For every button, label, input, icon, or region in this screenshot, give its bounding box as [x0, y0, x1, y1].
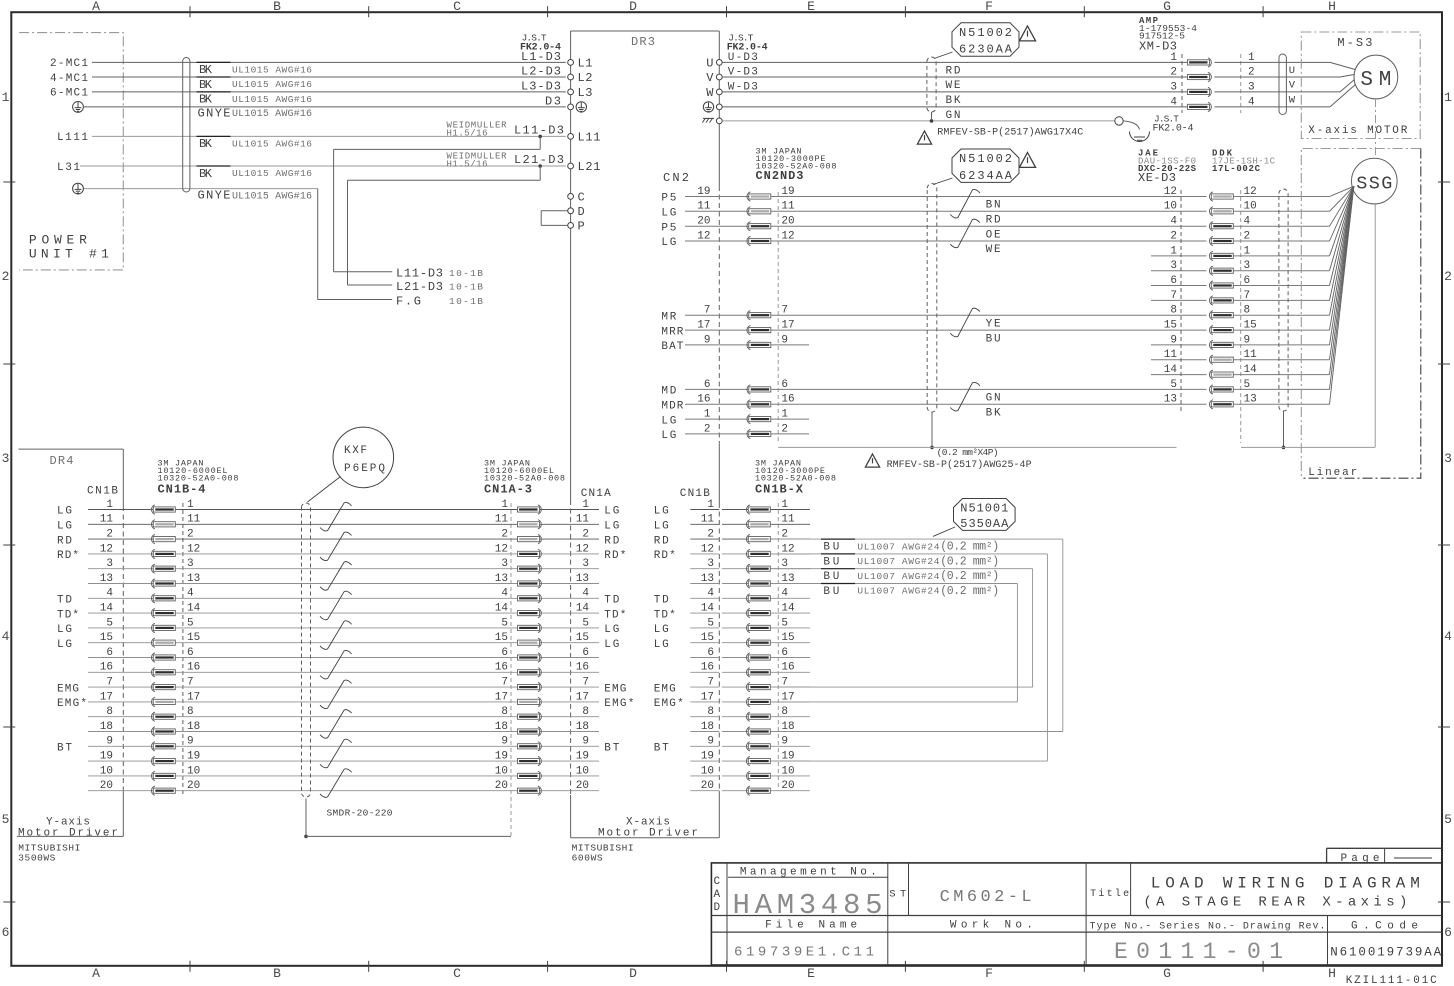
XE-D3 contact pin 14: [1211, 372, 1233, 377]
wire CN1B-4 pin 11 to CN1A-3: [88, 523, 599, 525]
XE-D3 contact pin 7: [1211, 298, 1233, 303]
svg-text:14: 14: [576, 603, 590, 615]
XM-D3 contact pin 3: [1188, 89, 1210, 94]
svg-text:D: D: [578, 205, 585, 219]
CN1A-3 contact pin 5: [518, 625, 540, 630]
svg-text:14: 14: [495, 603, 509, 615]
svg-text:4: 4: [707, 588, 714, 600]
twisted pair marker rows 0-1: [950, 189, 980, 218]
svg-text:RD: RD: [57, 535, 72, 547]
svg-text:1: 1: [1444, 90, 1452, 105]
svg-text:19: 19: [495, 751, 508, 763]
wire CN1B-4 pin 7 to CN1A-3: [88, 686, 599, 688]
svg-text:TD: TD: [654, 595, 669, 607]
CN1B-X wire pin 11: [722, 523, 810, 525]
svg-text:10: 10: [1164, 201, 1177, 213]
CN1B stub pin 11: [690, 523, 719, 525]
wire XE contact to SSG bend 1: [1233, 255, 1329, 257]
svg-text:F.G: F.G: [396, 295, 421, 309]
XE-D3 stub wire row 12: [1151, 374, 1207, 376]
wire CN1B-4 pin 18 to CN1A-3: [88, 731, 599, 733]
CN2 wire pin 6: [685, 388, 809, 390]
chassis symbol DR3 right: [703, 117, 714, 119]
balloon N51002 6234AA: [952, 149, 1019, 182]
encoder fan wire 2: [1330, 186, 1354, 241]
svg-text:F: F: [985, 0, 993, 14]
svg-text:KXF: KXF: [344, 445, 367, 457]
balloon leader N51001: [933, 527, 955, 536]
svg-text:18: 18: [187, 721, 200, 733]
svg-text:LG: LG: [57, 624, 72, 636]
svg-text:17: 17: [697, 320, 710, 332]
XE-D3 stub wire row 4: [1151, 255, 1207, 257]
svg-text:10: 10: [495, 765, 508, 777]
wire L31 to L21: [80, 165, 566, 167]
wire CN1B-4 pin 19 to CN1A-3: [88, 760, 599, 762]
svg-text:6: 6: [2, 925, 10, 940]
svg-text:CN1B: CN1B: [87, 485, 118, 497]
svg-text:MR: MR: [661, 311, 676, 323]
svg-text:BK: BK: [986, 408, 1001, 420]
encoder cable drain CN2 side: [931, 412, 933, 446]
wire label BK row3: [197, 91, 231, 93]
svg-text:UL1015 AWG#16: UL1015 AWG#16: [232, 191, 312, 202]
svg-text:12: 12: [697, 230, 710, 242]
CN1B-4 contact pin 12: [153, 551, 175, 556]
XE-D3 contact pin 12: [1211, 194, 1233, 199]
svg-text:SMDR-20-220: SMDR-20-220: [327, 808, 393, 819]
wire XE contact to SSG bend 10: [1233, 210, 1329, 212]
CN1A-3 contact pin 16: [518, 670, 540, 675]
CN1A-3 contact pin 10: [518, 773, 540, 778]
wire CN1B-4 pin 13 to CN1A-3: [88, 583, 599, 585]
svg-text:8: 8: [187, 706, 194, 718]
svg-text:BT: BT: [57, 743, 72, 755]
junction dot drain XE side: [1282, 446, 1286, 450]
svg-text:16: 16: [100, 662, 113, 674]
svg-text:9: 9: [781, 334, 788, 346]
twisted pair marker pins 8-18: [320, 710, 352, 739]
KXF drain bus: [306, 835, 511, 837]
junction dot motor drain: [930, 119, 934, 123]
svg-text:7: 7: [187, 677, 194, 689]
svg-text:7: 7: [501, 677, 508, 689]
CN1B-X wire pin 8: [722, 716, 810, 718]
svg-text:LG: LG: [654, 506, 669, 518]
svg-text:1: 1: [707, 499, 714, 511]
svg-text:BK: BK: [199, 93, 213, 107]
wire CN1B-4 pin 20 to CN1A-3: [88, 790, 599, 792]
svg-text:5: 5: [781, 617, 788, 629]
XE-D3 stub wire row 7: [1151, 299, 1207, 301]
svg-text:BU: BU: [986, 333, 1001, 345]
CN1A-3 contact pin 6: [518, 655, 540, 660]
svg-text:3: 3: [2, 451, 10, 466]
encoder fan wire 9: [1330, 186, 1354, 345]
svg-text:15: 15: [1164, 320, 1177, 332]
cup ground symbol motor cable: [1130, 132, 1150, 142]
svg-text:9: 9: [707, 736, 714, 748]
svg-text:GNYE: GNYE: [198, 189, 231, 203]
CN2ND3 contact pin 20: [749, 224, 771, 229]
svg-text:A: A: [714, 889, 721, 901]
svg-text:13: 13: [100, 573, 113, 585]
CN1B-4 contact pin 19: [153, 759, 175, 764]
svg-text:16: 16: [781, 662, 794, 674]
twisted pair marker pins 9-19: [320, 739, 352, 768]
svg-text:5: 5: [501, 617, 508, 629]
drain bus to SSG: [1374, 204, 1376, 447]
wire 4-MC1 to L2: [92, 76, 566, 78]
svg-text:CN1A-3: CN1A-3: [484, 483, 532, 497]
SM motor circle: [1354, 55, 1398, 99]
CN1B stub pin 17: [690, 701, 719, 703]
CN1B stub pin 9: [690, 745, 719, 747]
CN1B stub pin 20: [690, 790, 719, 792]
svg-text:3: 3: [1170, 260, 1177, 272]
KXF cable drain: [305, 799, 307, 836]
CAD cell divider: [726, 863, 728, 965]
chassis pigtail curve: [1123, 121, 1139, 130]
svg-text:EMG*: EMG*: [654, 698, 684, 710]
Y-axis motor driver DR4 box: [19, 448, 124, 450]
CN1A-3 contact pin 13: [518, 581, 540, 586]
svg-text:4: 4: [582, 588, 589, 600]
XE-D3 contact pin 8: [1211, 313, 1233, 318]
svg-text:G: G: [1163, 966, 1171, 981]
svg-text:D: D: [714, 902, 721, 914]
svg-text:19: 19: [576, 751, 589, 763]
encoder fan wire 8: [1330, 186, 1354, 315]
svg-text:E: E: [807, 0, 815, 14]
CN1A-3 contact pin 4: [518, 596, 540, 601]
encoder fan wire 5: [1330, 186, 1354, 389]
svg-text:UL1015 AWG#16: UL1015 AWG#16: [232, 94, 312, 105]
CN1B-X contact pin 8: [748, 714, 770, 719]
svg-text:W: W: [706, 86, 714, 100]
svg-text:FK2.0-4: FK2.0-4: [1153, 124, 1194, 135]
svg-text:14: 14: [781, 603, 795, 615]
svg-text:600WS: 600WS: [572, 853, 603, 864]
CN1B-X contact pin 18: [748, 729, 770, 734]
svg-text:11: 11: [781, 201, 795, 213]
svg-text:B: B: [273, 0, 281, 14]
svg-text:4: 4: [106, 588, 113, 600]
wire XE contact to SSG bend 12: [1233, 196, 1329, 198]
title block row divider 1: [711, 915, 1442, 917]
CN1B-4 contact pin 7: [153, 685, 175, 690]
XE-D3 contact pin 3: [1211, 268, 1233, 273]
frame column ticks and letters: [189, 6, 191, 17]
CN1B-X wire pin 9: [722, 745, 810, 747]
drain bus right segment: [1241, 446, 1375, 448]
svg-text:3: 3: [501, 558, 508, 570]
wire CN2 row 13 to XE-D3: [809, 388, 1207, 390]
twisted pair marker rows 2-3: [950, 219, 980, 248]
svg-text:4-MC1: 4-MC1: [50, 73, 88, 85]
warning triangle RMFEV25: [865, 454, 879, 467]
svg-text:Title: Title: [1090, 888, 1129, 900]
svg-text:RD: RD: [946, 66, 961, 78]
svg-text:3: 3: [187, 558, 194, 570]
terminal circle D: [568, 208, 574, 214]
svg-text:UL1015 AWG#16: UL1015 AWG#16: [232, 109, 312, 120]
terminal circle U: [716, 60, 722, 66]
motor fan wire 3: [1340, 80, 1354, 92]
CN1B stub pin 7: [690, 686, 719, 688]
CN2 wire pin 11: [685, 210, 809, 212]
svg-text:19: 19: [100, 751, 113, 763]
twisted pair marker pins 4-14: [320, 591, 352, 620]
svg-text:20: 20: [781, 780, 794, 792]
XM-D3 contact pin 4: [1188, 104, 1210, 109]
CN1B stub pin 10: [690, 775, 719, 777]
terminal circle L3: [568, 89, 574, 95]
svg-text:L2: L2: [578, 71, 593, 85]
PE symbol DR3 left: [576, 102, 586, 112]
svg-text:(0.2 mm²): (0.2 mm²): [940, 570, 999, 583]
CN1B-X wire pin 14: [722, 612, 810, 614]
svg-text:16: 16: [701, 662, 714, 674]
svg-text:L21: L21: [578, 160, 601, 174]
svg-text:2-MC1: 2-MC1: [50, 58, 88, 70]
svg-text:Motor Driver: Motor Driver: [18, 828, 118, 840]
XE-D3 contact pin 9: [1211, 342, 1233, 347]
X-axis motor driver DR3 box: [571, 30, 720, 32]
CN2ND3 contact pin 19: [749, 194, 771, 199]
svg-text:LG: LG: [604, 506, 619, 518]
terminal circle L21: [568, 163, 574, 169]
svg-text:8: 8: [501, 706, 508, 718]
svg-text:EMG: EMG: [654, 683, 676, 695]
svg-text:15: 15: [781, 632, 794, 644]
svg-text:20: 20: [701, 780, 714, 792]
svg-text:17: 17: [100, 691, 113, 703]
svg-text:3: 3: [106, 558, 113, 570]
CN2ND3 contact pin 16: [749, 402, 771, 407]
CN1B-4 contact pin 3: [153, 566, 175, 571]
CN1B-X wire pin 4: [722, 597, 810, 599]
svg-text:12: 12: [495, 543, 508, 555]
svg-text:3: 3: [1444, 451, 1452, 466]
wire CN2 row 0 to XE-D3: [809, 196, 1207, 198]
svg-text:LG: LG: [654, 624, 669, 636]
svg-text:1: 1: [106, 499, 113, 511]
terminal circle W: [716, 89, 722, 95]
terminal circle DR3 chassis: [716, 118, 722, 124]
svg-text:L21-D3: L21-D3: [396, 280, 443, 294]
svg-text:UL1015 AWG#16: UL1015 AWG#16: [232, 168, 312, 179]
SSG encoder circle: [1352, 158, 1398, 204]
svg-text:UL1007 AWG#24: UL1007 AWG#24: [857, 556, 939, 567]
wire CN1B-4 pin 1 to CN1A-3: [88, 509, 599, 511]
svg-text:H1.5/16: H1.5/16: [447, 160, 488, 170]
svg-text:D: D: [629, 0, 637, 14]
svg-text:LG: LG: [654, 521, 669, 533]
CN1B-4 contact pin 5: [153, 625, 175, 630]
wire XE contact to SSG bend 4: [1233, 225, 1329, 227]
svg-text:1: 1: [781, 499, 788, 511]
wire XE contact to SSG bend 11: [1233, 359, 1329, 361]
svg-text:CN1B-X: CN1B-X: [755, 483, 804, 497]
svg-text:5: 5: [1170, 379, 1177, 391]
svg-text:X-axis MOTOR: X-axis MOTOR: [1308, 125, 1407, 137]
svg-text:1: 1: [1170, 52, 1177, 64]
CN1B stub pin 3: [690, 568, 719, 570]
svg-text:KZIL111-01C: KZIL111-01C: [1346, 975, 1437, 986]
wire CN2 row 8 to XE-D3: [809, 314, 1207, 316]
svg-text:L2-D3: L2-D3: [521, 64, 561, 78]
KXF leader: [308, 477, 341, 503]
svg-text:LG: LG: [661, 415, 676, 427]
svg-text:13: 13: [576, 573, 589, 585]
svg-text:LG: LG: [661, 430, 676, 442]
CN2 cable dashed line: [777, 192, 779, 443]
wire XE contact to SSG bend 7: [1233, 299, 1329, 301]
CN1B-X wire pin 17: [722, 701, 810, 703]
svg-text:19: 19: [187, 751, 200, 763]
svg-text:6: 6: [582, 647, 589, 659]
wire XE contact to SSG bend 9: [1233, 344, 1329, 346]
svg-text:9: 9: [187, 736, 194, 748]
management underline: [728, 876, 888, 878]
twisted pair marker pins 1-11: [320, 502, 352, 531]
CN1B-X contact pin 12: [748, 551, 770, 556]
junction dot KXF drain: [304, 835, 308, 839]
twisted pair marker pins 2-12: [320, 532, 352, 561]
svg-text:N610019739AA: N610019739AA: [1330, 946, 1441, 960]
svg-text:2: 2: [106, 529, 113, 541]
motor cable drain stem: [931, 112, 933, 119]
CN1A-3 contact pin 18: [518, 729, 540, 734]
svg-text:16: 16: [697, 394, 710, 406]
CN1B-X contact pin 3: [748, 566, 770, 571]
ST cell divider: [908, 863, 910, 916]
twisted pair marker pins 3-13: [320, 562, 352, 591]
CN1B-4 contact pin 20: [153, 788, 175, 793]
svg-text:WE: WE: [946, 80, 961, 92]
svg-text:13: 13: [1164, 394, 1177, 406]
CN1B-X contact pin 19: [748, 759, 770, 764]
management cell divider: [887, 863, 889, 965]
CN1B-X contact pin 10: [748, 773, 770, 778]
svg-text:10-1B: 10-1B: [449, 296, 483, 307]
svg-text:XE-D3: XE-D3: [1138, 171, 1176, 185]
svg-text:19: 19: [697, 186, 710, 198]
svg-text:6: 6: [106, 647, 113, 659]
CN2ND3 contact pin 11: [749, 209, 771, 214]
XE-D3 contact pin 4: [1211, 224, 1233, 229]
svg-text:GN: GN: [946, 110, 961, 122]
svg-text:(0.2 mm²): (0.2 mm²): [940, 541, 999, 554]
svg-text:8: 8: [1170, 305, 1177, 317]
svg-text:17: 17: [187, 691, 200, 703]
CN1B stub pin 16: [690, 671, 719, 673]
svg-text:(A STAGE REAR X-axis): (A STAGE REAR X-axis): [1143, 895, 1407, 911]
page box: [1327, 847, 1442, 849]
terminal circle DR3 PE right: [716, 104, 722, 110]
svg-text:2: 2: [1170, 230, 1177, 242]
svg-text:D: D: [629, 966, 637, 981]
svg-text:20: 20: [781, 216, 794, 228]
motor bundle oval solid: [1279, 54, 1286, 115]
CN1B-X contact pin 9: [748, 744, 770, 749]
power cable bundle oval: [183, 58, 190, 193]
encoder fan wire 4: [1330, 186, 1354, 226]
svg-text:7: 7: [1170, 290, 1177, 302]
svg-text:RD*: RD*: [654, 550, 676, 562]
svg-text:L11: L11: [578, 131, 601, 145]
svg-text:D3: D3: [545, 94, 561, 108]
svg-text:DR4: DR4: [50, 454, 74, 468]
XE-D3 contact pin 13: [1211, 402, 1233, 407]
CN1B-X wire pin 6: [722, 657, 810, 659]
svg-text:17L-002C: 17L-002C: [1212, 164, 1261, 174]
CN1B stub pin 4: [690, 597, 719, 599]
twisted pair marker pins 6-16: [320, 650, 352, 679]
CN1B-4 contact pin 18: [153, 729, 175, 734]
CN2ND3 contact pin 9: [749, 342, 771, 347]
svg-text:18: 18: [495, 721, 508, 733]
CN1B stub pin 8: [690, 716, 719, 718]
svg-text:A: A: [92, 0, 100, 14]
svg-text:BK: BK: [199, 78, 213, 92]
XE-D3 contact pin 6: [1211, 283, 1233, 288]
CN1B-4 contact pin 13: [153, 581, 175, 586]
twisted pair marker pins 7-17: [320, 680, 352, 709]
XE-D3 contact pin 1: [1211, 253, 1233, 258]
svg-text:7: 7: [781, 305, 788, 317]
svg-text:L3-D3: L3-D3: [521, 79, 561, 93]
XE-D3 contact pin 11: [1211, 357, 1233, 362]
svg-text:16: 16: [495, 662, 508, 674]
svg-text:8: 8: [582, 706, 589, 718]
encoder fan wire 7: [1330, 186, 1354, 300]
svg-text:2: 2: [1444, 269, 1452, 284]
svg-text:CM602-L: CM602-L: [940, 888, 1032, 907]
svg-text:RD*: RD*: [57, 550, 79, 562]
CN1A-3 contact pin 15: [518, 640, 540, 645]
svg-text:BN: BN: [986, 200, 1001, 212]
svg-text:(0.2 mm²): (0.2 mm²): [940, 555, 999, 568]
encoder fan wire 10: [1330, 186, 1354, 211]
XM-D3 contact pin 2: [1188, 74, 1210, 79]
CN2 wire pin 1: [685, 418, 809, 420]
CN1B stub pin 12: [690, 553, 719, 555]
warning triangle top: [1019, 26, 1035, 41]
svg-text:10: 10: [576, 765, 589, 777]
CN2 wire pin 16: [685, 403, 809, 405]
svg-text:2: 2: [2, 269, 10, 284]
XE-D3 stub wire row 10: [1151, 344, 1207, 346]
wire 6-MC1 to L3: [92, 91, 566, 93]
svg-text:C: C: [453, 966, 461, 981]
svg-text:G: G: [1163, 0, 1171, 14]
wire label BK L111: [197, 135, 231, 137]
svg-text:BK: BK: [199, 63, 213, 77]
svg-text:UL1007 AWG#24: UL1007 AWG#24: [857, 586, 939, 597]
loop wire CN1B-X pin 12 to pin 19: [771, 553, 1047, 555]
CN1B-X cable dashed line: [777, 503, 779, 791]
junction dot L21 tag: [538, 164, 542, 168]
CN1B stub pin 5: [690, 627, 719, 629]
svg-text:TD*: TD*: [57, 609, 79, 621]
svg-text:16: 16: [576, 662, 589, 674]
svg-text:H: H: [1328, 966, 1336, 981]
junction dot drain CN2 side: [930, 446, 934, 450]
svg-text:20: 20: [495, 780, 508, 792]
wire CN2 row 3 to XE-D3: [809, 240, 1207, 242]
